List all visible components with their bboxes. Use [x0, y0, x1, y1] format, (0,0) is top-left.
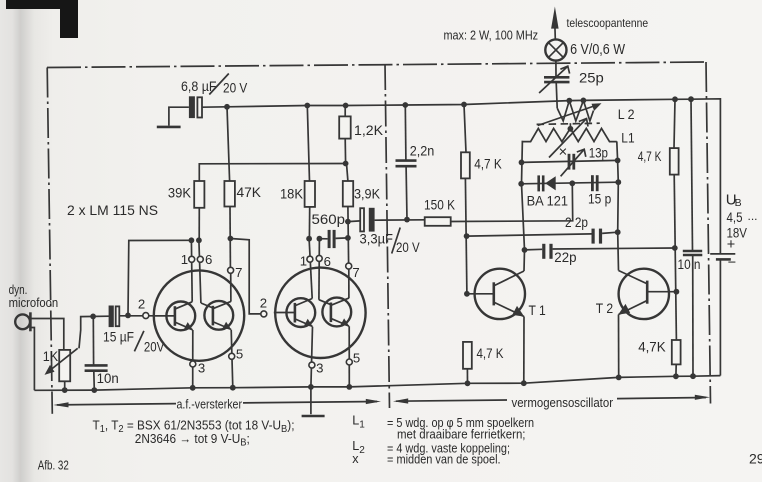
svg-text:T 2: T 2 [596, 301, 613, 316]
label UB 4,5...18V [726, 192, 758, 241]
note L1 line [352, 414, 534, 442]
wire: 6.8uF to ground [169, 107, 189, 125]
op-amp U1 big circle [154, 270, 244, 360]
potentiometer 1K arrow [45, 348, 78, 375]
transistor Q inside U1 left [154, 302, 195, 331]
node: rail junction dots [224, 96, 694, 109]
transistor T1 [467, 269, 525, 319]
svg-text:4,7 K: 4,7 K [477, 346, 504, 361]
coupling dashed line [537, 123, 600, 124]
resistor 4.7K osc left top [461, 105, 470, 294]
ground (below IC2) [302, 387, 325, 416]
pin 6 IC1 [197, 240, 212, 303]
capacitor C 3.3uF electrolytic [348, 208, 425, 232]
svg-text:3: 3 [316, 361, 323, 376]
op-amp U2 big circle [275, 268, 365, 358]
label 15uF/20V [103, 330, 165, 355]
pin 6 IC2 [316, 239, 331, 300]
svg-text:1: 1 [181, 252, 188, 267]
svg-text:15 µF: 15 µF [103, 330, 134, 345]
node: IC1 pin7 node [228, 236, 234, 242]
microphone [15, 312, 30, 331]
svg-text:47K: 47K [237, 185, 262, 200]
svg-text:2 x LM 115 NS: 2 x LM 115 NS [67, 202, 158, 218]
label 6,8 uF/20 V [181, 74, 248, 96]
resistor 39K [194, 164, 345, 241]
transistor Q inside U2 left [274, 298, 315, 327]
pin 7 IC1 [228, 265, 243, 302]
svg-text:met draaibare ferrietkern;: met draaibare ferrietkern; [397, 427, 526, 441]
svg-text:telescoopantenne: telescoopantenne [567, 16, 649, 30]
resistor 150K horizontal [425, 183, 573, 226]
svg-text:6 V/0,6 W: 6 V/0,6 W [570, 42, 625, 58]
wire: T1 emitter to rail [523, 317, 525, 384]
scan mark top-left corner [6, 0, 78, 38]
svg-text:BA 121: BA 121 [527, 194, 568, 209]
inductor L1 adjust arrow [549, 119, 588, 158]
svg-text:4,5: 4,5 [727, 209, 743, 225]
svg-text:max: 2 W, 100 MHz: max: 2 W, 100 MHz [444, 29, 539, 43]
svg-text:20 V: 20 V [396, 240, 420, 255]
battery UB [710, 237, 736, 271]
pin 1 IC1 [181, 240, 195, 301]
pin 5 IC2 emitter to rail [346, 326, 360, 387]
svg-text:T 1: T 1 [529, 303, 546, 318]
svg-text:39K: 39K [168, 186, 192, 201]
svg-text:10n: 10n [97, 371, 119, 386]
svg-text:6: 6 [205, 252, 212, 267]
wire: 10n to rail [93, 371, 96, 390]
resistor 18K [305, 106, 315, 239]
wire: T2 emitter to rail [618, 315, 620, 378]
wire: pot wiper up to signal [79, 316, 109, 348]
node: input node [125, 313, 131, 319]
svg-text:1,2K: 1,2K [354, 123, 384, 138]
pin 7 IC2 [346, 263, 360, 298]
wire: tank row2 [521, 182, 618, 184]
capacitor C 22p lower [525, 244, 675, 259]
capacitor C 2.2n [396, 105, 417, 220]
wire: pot bottom to rail [64, 381, 66, 390]
wire: feedback vertical to input [128, 240, 191, 315]
svg-text:29: 29 [749, 451, 762, 467]
svg-text:3,3µF: 3,3µF [360, 232, 394, 247]
svg-text:...: ... [748, 209, 758, 223]
wire: tank row1 [522, 160, 618, 162]
wire: coupling IC1 out to IC2 pin2 [230, 239, 261, 314]
resistor 47K [224, 107, 235, 267]
node: pins 1-6 bridge IC2 [306, 236, 322, 242]
svg-text:3,9K: 3,9K [354, 187, 381, 202]
svg-text:×: × [559, 144, 568, 161]
svg-text:5: 5 [236, 347, 243, 362]
frame border dash-dot left [47, 68, 52, 414]
node: feedback node [343, 161, 349, 167]
svg-text:3: 3 [198, 361, 205, 376]
svg-text:1K: 1K [43, 349, 59, 364]
svg-text:5: 5 [353, 351, 360, 366]
node: L1 centre tap [568, 123, 574, 132]
svg-text:22p: 22p [554, 250, 577, 265]
svg-text:4,7 K: 4,7 K [638, 149, 662, 164]
node: tank corner dots [518, 158, 621, 187]
resistor 1.2K [339, 106, 351, 164]
wire: top supply rail [202, 99, 720, 253]
svg-text:560p: 560p [312, 212, 346, 227]
node: 22p junctions [522, 229, 678, 253]
frame border dash-dot right [706, 62, 711, 404]
frame border dash-dot top [47, 62, 708, 68]
transistor Q inside U1 right [201, 301, 233, 330]
inductor L2 adjust arrow [538, 103, 602, 125]
wire: T1 collector vertical [522, 141, 525, 271]
pin 1 IC2 [300, 239, 313, 299]
pin 5 IC1 emitter to rail [229, 330, 244, 388]
svg-text:150 K: 150 K [424, 198, 456, 213]
dimension arrow vermogensoscillator [393, 395, 710, 404]
svg-text:x: x [352, 452, 359, 466]
resistor 4.7K osc right bottom [672, 340, 681, 376]
capacitor C 10n supply [683, 99, 703, 376]
wire: 15uF to pin2 IC1 [119, 315, 175, 317]
inductor L2 [557, 101, 593, 121]
ground (top left) [157, 126, 181, 129]
diode BA121 with series cap [537, 175, 555, 191]
pin 2 IC1 [138, 297, 149, 319]
svg-text:−: − [728, 255, 736, 271]
wire: mic top to pot top [30, 319, 63, 350]
section divider dash-dot [385, 64, 390, 408]
node: pins 1-6 bridge IC1 [189, 237, 202, 243]
capacitor C 15p [591, 175, 599, 191]
label dyn. microfoon [9, 282, 59, 310]
svg-text:2: 2 [138, 297, 145, 312]
node: varicap node [569, 180, 575, 186]
svg-text:6: 6 [324, 254, 331, 269]
capacitor C 22p upper [467, 229, 618, 244]
svg-text:13p: 13p [589, 146, 609, 161]
resistor 4.7K osc left bottom [463, 342, 472, 383]
svg-text:Afb. 32: Afb. 32 [38, 458, 69, 472]
svg-text:microfoon: microfoon [9, 295, 59, 310]
node: bottom rail dots [62, 373, 696, 393]
label 3,3uF/20 V [360, 228, 421, 256]
wire: 25p down through rail to L2 [556, 82, 557, 108]
node: 150K input node [404, 217, 410, 223]
capacitor C 6.8uF electrolytic [189, 96, 202, 118]
resistor 3.9K [343, 164, 353, 264]
wire: lamp to 25p [555, 61, 557, 76]
svg-text:L 2: L 2 [618, 106, 635, 122]
svg-text:L1: L1 [621, 130, 634, 146]
svg-text:25p: 25p [579, 70, 604, 86]
resistor 4.7K osc right top [670, 99, 679, 340]
wire: T2 collector vertical [617, 141, 619, 270]
svg-text:4,7 K: 4,7 K [474, 157, 502, 172]
note L2 line [352, 439, 510, 456]
node: 3.9K bottom nodes [345, 219, 351, 241]
capacitor C 560p [319, 230, 348, 248]
capacitor C 25p trimmer [539, 66, 570, 93]
svg-text:15 p: 15 p [588, 192, 612, 207]
node: T1 base chain dots [464, 233, 470, 296]
svg-text:18K: 18K [280, 187, 304, 202]
node: T2 base junction [674, 289, 680, 295]
svg-text:1: 1 [300, 253, 307, 268]
svg-text:2,2n: 2,2n [410, 144, 435, 159]
svg-text:a.f.-versterker: a.f.-versterker [177, 398, 243, 412]
wire: battery to bottom rail [719, 259, 721, 375]
svg-text:20 V: 20 V [223, 81, 248, 96]
svg-text:4,7K: 4,7K [638, 340, 665, 355]
svg-text:18V: 18V [727, 225, 748, 241]
pin 3 IC1 emitter to rail [190, 330, 205, 388]
lamp 6V/0.6W [545, 39, 566, 60]
pin 3 IC2 emitter to rail [309, 327, 324, 387]
wire: bottom rail [34, 376, 720, 391]
svg-text:2 2p: 2 2p [565, 215, 588, 230]
potentiometer 1K body [59, 350, 70, 381]
capacitor C 15uF electrolytic [109, 306, 120, 328]
svg-text:= midden van de spoel.: = midden van de spoel. [387, 453, 501, 467]
pin 2 IC2 [260, 295, 267, 317]
svg-text:vermogensoscillator: vermogensoscillator [512, 396, 614, 410]
svg-text:7: 7 [235, 265, 242, 280]
capacitor C 10n (input filter) [85, 365, 108, 370]
transistor Q inside U2 right [319, 298, 351, 327]
dimension arrow a.f.-versterker [53, 399, 381, 408]
transistor T2 [618, 269, 676, 319]
antenna telescopic arrow [551, 7, 559, 40]
svg-text:2: 2 [260, 295, 267, 310]
note x line [352, 452, 500, 467]
svg-text:B: B [735, 197, 742, 209]
wire: 10n drop [92, 316, 94, 365]
wire: mic bottom down to rail [30, 328, 34, 391]
svg-text:10 n: 10 n [678, 257, 701, 272]
node: signal junction [90, 314, 96, 320]
capacitor C 13p trimmer [561, 149, 586, 176]
inductor L1 [522, 128, 617, 141]
svg-text:7: 7 [352, 265, 359, 280]
